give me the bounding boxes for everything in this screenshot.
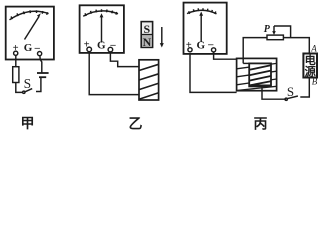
coil winding turns 乙: [139, 64, 159, 99]
terminal circle - 乙: [108, 47, 113, 52]
wire + terminal down and right to outer coil 丙: [190, 54, 237, 93]
terminal circle + 丙: [188, 48, 192, 52]
wire rheostat right to node A down to battery 丙: [283, 38, 309, 54]
galvanometer U3 meter case 丙: [184, 3, 227, 54]
meter needle 甲 (deflected right): [25, 17, 40, 40]
rheostat P body 丙: [267, 35, 283, 40]
resistor R (rectangle) 甲: [13, 67, 19, 83]
inner coil (primary) body 丙: [249, 63, 271, 86]
wire - terminal stair-step to coil top 乙: [110, 52, 139, 67]
terminal circle + 乙: [87, 47, 92, 52]
wire from + terminal down to resistor 甲: [15, 55, 17, 66]
wire rheostat to inner coil top 丙: [243, 38, 267, 64]
battery cell positive plate (long) 甲: [37, 72, 49, 74]
svg-text:G: G: [97, 40, 106, 52]
switch S lever (open) 甲: [25, 89, 32, 92]
switch lever (open) 丙: [288, 96, 298, 99]
wire + terminal down and right to coil bottom 乙: [89, 52, 139, 95]
svg-text:丙: 丙: [254, 117, 268, 133]
svg-text:G: G: [24, 42, 33, 54]
inner coil winding turns 丙: [249, 65, 270, 85]
rheostat slider arrow 丙: [273, 26, 275, 32]
wire switch to inner coil bottom 丙: [262, 86, 286, 99]
meter scale arc 甲: [10, 11, 49, 20]
svg-text:B: B: [312, 77, 318, 87]
svg-text:S: S: [287, 84, 294, 99]
svg-text:乙: 乙: [129, 117, 143, 133]
wire battery to - terminal 甲: [40, 56, 42, 73]
inner coil thick bottom edge 丙: [249, 84, 271, 86]
wire battery to switch corner 丙: [300, 78, 309, 98]
scale tick marks 丙: [189, 8, 216, 14]
galvanometer U2 meter case 乙: [80, 5, 124, 53]
bar magnet N cell shading 乙: [142, 35, 152, 47]
rheostat slider tap wire 丙: [274, 26, 291, 38]
svg-text:–: –: [109, 40, 116, 51]
switch pivot dot 丙: [285, 98, 287, 100]
bar magnet body (S over N) 乙: [141, 22, 152, 48]
outer coil (secondary) body 丙: [237, 58, 277, 90]
scale tick marks 甲: [11, 10, 48, 19]
svg-text:+: +: [84, 40, 90, 51]
outer coil winding turns 丙: [237, 63, 277, 90]
svg-text:甲: 甲: [21, 116, 35, 132]
meter scale arc 乙: [83, 11, 118, 16]
arrow: magnet moving down 乙: [161, 27, 163, 44]
switch right stub and corner wire 甲: [36, 78, 41, 92]
meter needle 乙 (vertical): [101, 17, 103, 43]
meter scale arc 丙: [187, 10, 217, 14]
svg-text:P: P: [264, 24, 271, 35]
battery cell negative plate (short) 甲: [39, 76, 46, 78]
svg-text:A: A: [310, 44, 317, 54]
terminal circle + 甲: [14, 51, 18, 55]
switch S pivot dot 甲: [23, 91, 25, 93]
coil (solenoid) body 乙: [139, 60, 159, 100]
svg-text:S: S: [24, 76, 32, 91]
svg-text:–: –: [207, 40, 214, 51]
svg-text:–: –: [34, 43, 41, 54]
svg-text:+: +: [13, 43, 19, 54]
svg-text:电: 电: [305, 53, 316, 67]
wire resistor to switch corner 甲: [16, 83, 23, 93]
inner coil top edge extension to feed wire 丙: [243, 62, 249, 64]
terminal circle - 甲: [38, 52, 42, 56]
scale tick marks 乙: [85, 9, 117, 16]
terminal circle - 丙: [212, 48, 216, 52]
battery box 电源 丙: [303, 54, 317, 78]
svg-text:G: G: [197, 39, 206, 51]
meter needle 丙 (vertical): [200, 15, 202, 41]
galvanometer U1 meter case 甲: [6, 7, 54, 60]
svg-text:+: +: [186, 40, 192, 51]
svg-text:N: N: [143, 35, 152, 49]
bar magnet divider line 乙: [141, 34, 152, 36]
wire - terminal down and right to outer coil top 丙: [214, 52, 237, 59]
